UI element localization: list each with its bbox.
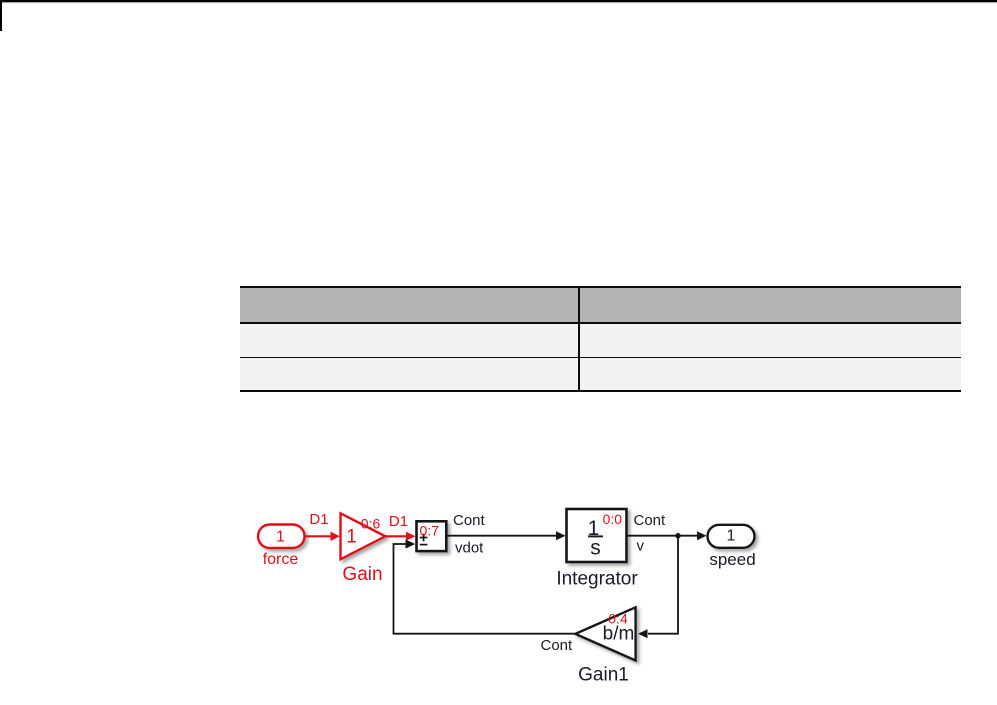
svg-text:Cont: Cont [634, 512, 667, 529]
svg-text:0:6: 0:6 [361, 516, 381, 532]
svg-text:0:7: 0:7 [420, 523, 440, 539]
svg-text:1: 1 [276, 529, 285, 546]
svg-text:1: 1 [346, 527, 357, 548]
svg-text:force: force [263, 551, 299, 568]
svg-text:1: 1 [727, 528, 736, 545]
svg-text:0:0: 0:0 [603, 511, 623, 527]
svg-text:D1: D1 [309, 511, 328, 528]
svg-text:v: v [637, 538, 645, 555]
svg-text:Integrator: Integrator [556, 569, 638, 590]
svg-text:s: s [590, 537, 601, 560]
svg-text:Cont: Cont [453, 512, 486, 529]
svg-text:Gain: Gain [342, 564, 382, 585]
svg-text:b/m: b/m [603, 624, 635, 645]
svg-text:vdot: vdot [455, 540, 484, 557]
svg-text:speed: speed [709, 550, 755, 569]
svg-text:D1: D1 [389, 513, 408, 530]
svg-text:Gain1: Gain1 [578, 665, 629, 686]
svg-text:Cont: Cont [541, 637, 574, 654]
